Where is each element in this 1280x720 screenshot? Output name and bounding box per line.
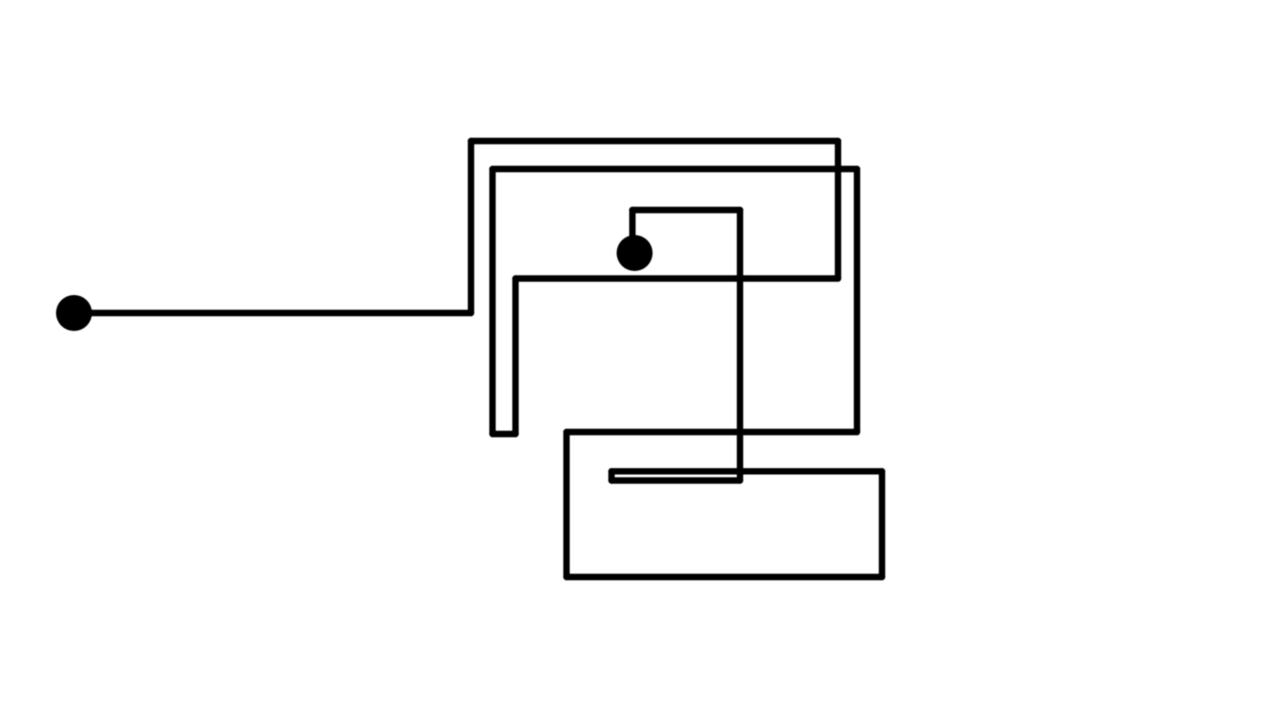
wire segment 16 (hairpin down) — [608, 471, 614, 480]
wire segment 14 (up) — [879, 471, 885, 577]
wire segment 20 (down to B) — [629, 210, 635, 253]
wire segment 13 (bottom, right) — [567, 574, 883, 580]
wire segment 3 (top outer, right) — [471, 138, 838, 144]
wire segment 19 (left) — [632, 207, 740, 213]
wire segment 9 (top inner, right) — [493, 166, 858, 172]
wire segment 18 (long up) — [737, 210, 743, 481]
wire segment 8 (up) — [489, 169, 495, 434]
wire segment 12 (down) — [563, 432, 569, 577]
node B end dot — [617, 235, 653, 271]
wire segment 4 (down) — [835, 141, 841, 279]
wire segment 5 (left) — [516, 275, 839, 281]
node A start dot — [56, 295, 92, 331]
wire segment 17 (right) — [612, 477, 741, 483]
wire segment 11 (left) — [567, 429, 858, 435]
wire segment 2 (up) — [468, 141, 474, 313]
wire segment 7 (u-turn bottom) — [493, 431, 516, 437]
wire segment 10 (down) — [854, 169, 860, 432]
wire segment 6 (down) — [512, 279, 518, 435]
wire segment 15 (left) — [612, 468, 883, 474]
wire segment 1 (A right) — [74, 310, 471, 316]
